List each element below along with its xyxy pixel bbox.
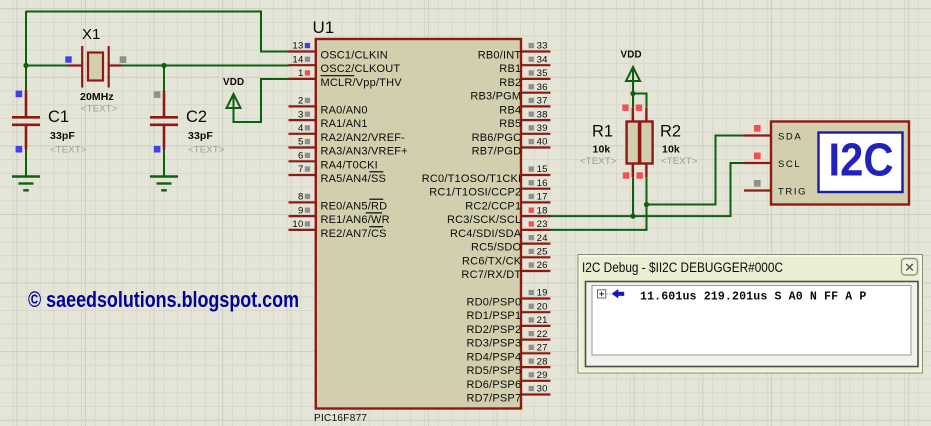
svg-text:14: 14: [292, 54, 304, 65]
wire crystal right to pin 14: [122, 65, 289, 67]
wire SCL net: pin 18 - R1 bottom - I2C SCL: [549, 163, 746, 216]
svg-text:RB1: RB1: [499, 63, 521, 75]
I2C Debug window: [578, 255, 923, 374]
svg-text:RA2/AN2/VREF-: RA2/AN2/VREF-: [321, 132, 406, 144]
U1 pin 8 (RE0/AN5/RD): [289, 192, 388, 213]
svg-text:RD5/PSP5: RD5/PSP5: [467, 365, 522, 377]
I2C module pin SDA: [744, 125, 802, 143]
svg-text:R2: R2: [660, 123, 681, 141]
svg-text:RE0/AN5/RD: RE0/AN5/RD: [321, 200, 388, 212]
R1/R2 pin indicator squares: [622, 105, 628, 111]
svg-text:RB7/PGD: RB7/PGD: [472, 146, 522, 158]
svg-text:20MHz: 20MHz: [80, 91, 114, 103]
svg-text:TRIG: TRIG: [778, 187, 807, 198]
svg-text:RA5/AN4/SS: RA5/AN4/SS: [321, 173, 387, 185]
svg-text:18: 18: [537, 205, 548, 216]
svg-text:RB5: RB5: [499, 118, 521, 130]
U1 pin 22 (RD3/PSP3): [467, 329, 551, 350]
wire C2 top: [163, 66, 165, 91]
svg-text:VDD: VDD: [223, 77, 244, 88]
svg-text:X1: X1: [82, 26, 100, 43]
svg-text:PIC16F877: PIC16F877: [314, 413, 367, 424]
svg-text:11.601us 219.201us S A0 N FF A: 11.601us 219.201us S A0 N FF A P: [640, 291, 866, 304]
U1 pin 37 (RB4): [499, 96, 550, 117]
svg-text:SDA: SDA: [778, 132, 802, 143]
U1 pin 2 (RA0/AN0): [289, 96, 368, 117]
wire C1 bottom to ground: [25, 150, 27, 177]
svg-text:I2C: I2C: [829, 134, 894, 186]
svg-text:20: 20: [537, 301, 548, 312]
svg-text:7: 7: [298, 164, 304, 175]
svg-text:RE2/AN7/CS: RE2/AN7/CS: [321, 228, 387, 240]
wire R2 bottom lead: [646, 177, 648, 204]
I2C module pin SCL: [744, 153, 801, 171]
svg-text:10k: 10k: [593, 144, 611, 156]
svg-text:28: 28: [537, 356, 548, 367]
svg-text:27: 27: [537, 343, 548, 354]
crystal X1: [68, 46, 122, 88]
svg-text:OSC1/CLKIN: OSC1/CLKIN: [321, 50, 388, 62]
svg-text:29: 29: [537, 370, 548, 381]
svg-text:1: 1: [298, 68, 304, 79]
svg-text:8: 8: [298, 192, 304, 203]
svg-text:4: 4: [298, 123, 304, 134]
svg-text:33: 33: [537, 41, 548, 52]
wire VDD2 stem to R1/R2 tops: [632, 68, 634, 108]
U1 pin 4 (RA2/AN2/VREF-): [289, 123, 406, 144]
svg-text:RD7/PSP7: RD7/PSP7: [467, 393, 522, 405]
svg-text:<TEXT>: <TEXT>: [50, 145, 87, 156]
power VDD (MCLR net): [227, 94, 241, 108]
svg-text:VDD: VDD: [621, 50, 642, 61]
svg-text:SCL: SCL: [778, 159, 801, 170]
svg-text:RD3/PSP3: RD3/PSP3: [467, 338, 522, 350]
U1 pin 23 (RC4/SDI/SDA): [450, 219, 550, 240]
U1 pin 9 (RE1/AN6/WR): [289, 205, 390, 226]
U1 pin 38 (RB5): [499, 109, 550, 130]
svg-text:33pF: 33pF: [50, 130, 75, 142]
U1 pin 20 (RD1/PSP1): [467, 301, 551, 322]
U1 pin 18 (RC3/SCK/SCL): [447, 205, 550, 226]
blue arrow marker: [612, 289, 625, 299]
U1 pin 7 (RA5/AN4/SS): [289, 164, 387, 185]
svg-text:RC1/T1OSI/CCP2: RC1/T1OSI/CCP2: [429, 187, 521, 199]
I2C module pin TRIG: [744, 180, 807, 198]
ground (C2): [150, 177, 178, 191]
capacitor C2: [150, 91, 178, 150]
window client panel: [586, 282, 919, 367]
svg-text:38: 38: [537, 109, 548, 120]
svg-text:39: 39: [537, 123, 548, 134]
svg-text:40: 40: [537, 137, 548, 148]
U1 pin 25 (RC6/TX/CK): [462, 247, 550, 268]
C1 pin indicator squares: [16, 91, 23, 98]
svg-text:RC3/SCK/SCL: RC3/SCK/SCL: [447, 214, 521, 226]
U1 pin 3 (RA1/AN1): [289, 109, 368, 130]
svg-text:RB3/PGM: RB3/PGM: [470, 91, 521, 103]
svg-text:34: 34: [537, 54, 549, 65]
svg-text:RB2: RB2: [499, 77, 521, 89]
svg-text:17: 17: [537, 192, 548, 203]
svg-text:30: 30: [537, 384, 548, 395]
U1 pin 27 (RD4/PSP4): [467, 343, 551, 364]
svg-text:C2: C2: [186, 108, 207, 126]
U1 pin 33 (RB0/INT): [478, 41, 551, 62]
svg-text:RE1/AN6/WR: RE1/AN6/WR: [321, 214, 390, 226]
wire OSC1 net: top-left corner to pin 13: [26, 12, 289, 52]
svg-text:© saeedsolutions.blogspot.com: © saeedsolutions.blogspot.com: [28, 287, 299, 312]
I2C debugger module body: [771, 122, 909, 205]
U1 pin 16 (RC1/T1OSI/CCP2): [429, 178, 550, 199]
svg-text:RA3/AN3/VREF+: RA3/AN3/VREF+: [321, 146, 408, 158]
wire VDD to MCLR pin 1: [234, 79, 290, 122]
U1 pin 28 (RD5/PSP5): [467, 356, 551, 377]
svg-text:10: 10: [292, 219, 303, 230]
U1 pin 19 (RD0/PSP0): [467, 288, 551, 309]
U1 pin 26 (RC7/RX/DT): [461, 260, 550, 281]
svg-text:37: 37: [537, 96, 548, 107]
svg-text:9: 9: [298, 205, 304, 216]
svg-text:5: 5: [298, 137, 304, 148]
I2C logo box: [819, 133, 903, 193]
U1 pin 17 (RC2/CCP1): [465, 192, 550, 213]
svg-text:R1: R1: [592, 123, 613, 141]
svg-text:RC5/SDO: RC5/SDO: [471, 242, 522, 254]
svg-text:6: 6: [298, 151, 304, 162]
U1 pin 21 (RD2/PSP2): [467, 315, 551, 336]
svg-text:OSC2/CLKOUT: OSC2/CLKOUT: [321, 63, 401, 75]
svg-text:24: 24: [537, 233, 549, 244]
svg-text:RB6/PGC: RB6/PGC: [472, 132, 522, 144]
wire OSC2 net horizontal through crystal to pin 14: [26, 65, 68, 67]
svg-text:13: 13: [292, 41, 303, 52]
U1 pin 15 (RC0/T1OSO/T1CKI): [422, 164, 551, 185]
svg-text:3: 3: [298, 109, 304, 120]
U1 pin 35 (RB2): [499, 68, 550, 89]
svg-text:MCLR/Vpp/THV: MCLR/Vpp/THV: [321, 77, 403, 89]
svg-text:RC0/T1OSO/T1CKI: RC0/T1OSO/T1CKI: [422, 173, 522, 185]
C2 pin indicator squares: [154, 91, 161, 98]
resistor R2 10k: [640, 108, 652, 177]
wire R1 bottom lead: [632, 177, 634, 216]
svg-text:RB0/INT: RB0/INT: [478, 50, 522, 62]
svg-text:RC6/TX/CK: RC6/TX/CK: [462, 255, 522, 267]
svg-text:I2C Debug - $II2C DEBUGGER#000: I2C Debug - $II2C DEBUGGER#000C: [582, 260, 783, 275]
resistor R1 10k: [627, 108, 639, 177]
U1 pin 13 (OSC1/CLKIN): [289, 41, 388, 62]
svg-text:35: 35: [537, 68, 548, 79]
ground (C1): [12, 177, 40, 191]
X1 pin indicator squares: [65, 56, 71, 62]
U1 pin 10 (RE2/AN7/CS): [289, 219, 387, 240]
svg-text:RA1/AN1: RA1/AN1: [321, 118, 368, 130]
wire XTAL left vertical (corner down to C1): [25, 11, 27, 91]
svg-text:<TEXT>: <TEXT>: [188, 145, 225, 156]
svg-text:RA0/AN0: RA0/AN0: [321, 104, 368, 116]
U1 pin 24 (RC5/SDO): [471, 233, 550, 254]
power VDD (resistor net): [626, 67, 640, 81]
U1 pin 36 (RB3/PGM): [470, 82, 550, 103]
window close button: [902, 259, 918, 276]
svg-text:RD0/PSP0: RD0/PSP0: [467, 297, 522, 309]
svg-text:C1: C1: [48, 108, 69, 126]
U1 pin 1 (MCLR/Vpp/THV): [289, 68, 403, 89]
svg-text:10k: 10k: [662, 144, 680, 156]
svg-text:RC2/CCP1: RC2/CCP1: [465, 200, 521, 212]
svg-text:22: 22: [537, 329, 548, 340]
IC U1 PIC16F877 body: [316, 39, 521, 409]
svg-text:RD1/PSP1: RD1/PSP1: [467, 310, 522, 322]
svg-text:<TEXT>: <TEXT>: [661, 156, 698, 167]
svg-text:33pF: 33pF: [188, 130, 213, 142]
U1 pin 30 (RD7/PSP7): [467, 384, 551, 405]
svg-text:RA4/T0CKI: RA4/T0CKI: [321, 159, 378, 171]
svg-text:16: 16: [537, 178, 548, 189]
svg-text:RC4/SDI/SDA: RC4/SDI/SDA: [450, 228, 522, 240]
svg-text:RB4: RB4: [499, 104, 521, 116]
U1 pin 5 (RA3/AN3/VREF+): [289, 137, 408, 158]
U1 pin 40 (RB7/PGD): [472, 137, 551, 158]
svg-text:RD2/PSP2: RD2/PSP2: [467, 324, 522, 336]
svg-text:19: 19: [537, 288, 548, 299]
svg-text:<TEXT>: <TEXT>: [81, 104, 118, 115]
svg-text:RD4/PSP4: RD4/PSP4: [467, 351, 522, 363]
svg-text:21: 21: [537, 315, 548, 326]
svg-text:25: 25: [537, 247, 548, 258]
U1 pin 6 (RA4/T0CKI): [289, 151, 378, 172]
svg-text:15: 15: [537, 164, 548, 175]
U1 pin 14 (OSC2/CLKOUT): [289, 54, 401, 75]
svg-text:23: 23: [537, 219, 548, 230]
svg-text:RC7/RX/DT: RC7/RX/DT: [461, 269, 521, 281]
capacitor C1: [12, 91, 40, 150]
wire SDA net: pin 23 - R2 bottom - I2C SDA: [549, 136, 746, 230]
svg-text:U1: U1: [313, 18, 335, 37]
U1 pin 29 (RD6/PSP6): [467, 370, 551, 391]
svg-text:2: 2: [298, 96, 304, 107]
svg-text:RD6/PSP6: RD6/PSP6: [467, 379, 522, 391]
U1 pin 34 (RB1): [499, 54, 550, 75]
U1 pin 39 (RB6/PGC): [472, 123, 551, 144]
tree expand [+] box: [598, 290, 606, 298]
wire C2 bottom to ground: [163, 150, 165, 177]
svg-text:<TEXT>: <TEXT>: [580, 156, 617, 167]
node junction dots: [23, 63, 649, 219]
svg-text:26: 26: [537, 260, 548, 271]
svg-text:36: 36: [537, 82, 548, 93]
